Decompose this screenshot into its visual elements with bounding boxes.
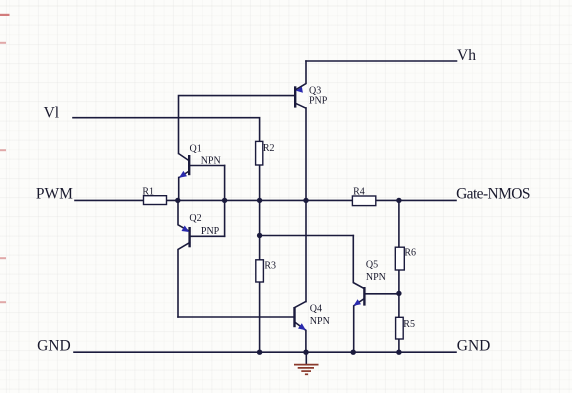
transistor Q4 emitter arrow (298, 323, 306, 330)
wire Q3 base from Q1 collector (179, 96, 295, 154)
sheet edge mark 3 (0, 149, 6, 151)
junction node Q3 collector on rail (303, 198, 308, 203)
wire R2 bottom through rail to R3 top (259, 165, 261, 260)
wire R3 bottom to ground rail (259, 282, 261, 352)
wire Vh vertical to Q3 emitter (296, 61, 306, 90)
svg-text:GND: GND (457, 337, 491, 354)
junction node R2-R3-Q5 (257, 233, 262, 238)
svg-text:R1: R1 (142, 187, 154, 198)
wire Q3 collector down to rail and Q4 collector (305, 108, 307, 302)
resistor R6 (395, 247, 404, 270)
transistor Q5 base bar (363, 287, 365, 306)
svg-text:R4: R4 (353, 187, 365, 198)
svg-text:Q4: Q4 (310, 303, 322, 314)
wire Vl to R2 top (73, 118, 260, 142)
wire ground rail (74, 351, 456, 353)
transistor Q2 base bar (188, 227, 190, 247)
svg-text:Q2: Q2 (189, 213, 201, 224)
wire Q5 emitter to ground rail (354, 299, 365, 353)
resistor R3 (256, 260, 264, 282)
wire rail R6 branch (398, 200, 400, 247)
wire Q5 collector (353, 236, 364, 289)
svg-text:PNP: PNP (201, 226, 220, 237)
resistor R2 (256, 141, 263, 165)
ground stem (305, 352, 307, 364)
junction node R6 on rail (396, 198, 401, 203)
svg-text:Q5: Q5 (366, 260, 378, 271)
resistor R1 (144, 196, 167, 205)
ground symbol bars (294, 365, 319, 375)
svg-text:GND: GND (37, 337, 71, 354)
wire Q2 emitter from rail (178, 200, 190, 231)
wire rail PWM to R1 (75, 199, 144, 201)
junction node Q4 emitter on ground rail (303, 350, 308, 355)
svg-text:NPN: NPN (310, 316, 330, 327)
resistor R4 (352, 196, 375, 206)
sheet edge mark 5 (0, 301, 6, 303)
sheet edge mark 4 (0, 257, 6, 259)
transistor Q2 emitter arrow (182, 226, 190, 233)
transistor Q1 emitter arrow (179, 171, 187, 178)
wire Q4 collector slant (295, 302, 306, 308)
wire R6 bottom to node (398, 270, 400, 317)
wire Q2 collector down (178, 243, 190, 317)
sheet edge mark 2 (0, 42, 6, 44)
resistor R5 (396, 317, 404, 339)
wire node vertical x224 (224, 166, 226, 237)
svg-text:NPN: NPN (201, 156, 221, 167)
svg-text:R3: R3 (264, 260, 276, 271)
junction node R6-R5-Q5 base (396, 291, 401, 296)
transistor Q5 emitter arrow (354, 299, 362, 306)
wire Q2 collector to Q4 base (178, 316, 294, 318)
svg-text:Gate-NMOS: Gate-NMOS (456, 185, 530, 202)
wire Q4 emitter to ground rail (295, 322, 306, 352)
wire rail R4 to Gate-NMOS (376, 199, 456, 201)
sheet edge mark 1 (0, 14, 10, 16)
junction node R1/Q1/Q2 (175, 198, 180, 203)
svg-text:Q1: Q1 (190, 144, 202, 155)
wire Vh horizontal (306, 60, 457, 62)
junction node R3 on ground rail (257, 350, 262, 355)
svg-text:PNP: PNP (309, 95, 328, 106)
wire Q1 emitter down to rail (178, 178, 180, 201)
svg-text:R5: R5 (403, 319, 415, 330)
wire node R2R3 to Q5 collector (260, 235, 354, 237)
transistor Q3 emitter arrow (296, 87, 303, 93)
wire rail R1 to R4 (167, 199, 353, 201)
svg-text:Vh: Vh (457, 47, 476, 64)
svg-text:R2: R2 (263, 143, 275, 154)
svg-text:NPN: NPN (366, 272, 386, 283)
transistor Q1 slants (179, 154, 190, 178)
svg-text:Vl: Vl (44, 104, 60, 121)
transistor Q4 base bar (293, 307, 295, 327)
transistor Q3 base bar (294, 86, 296, 107)
transistor Q1 base bar (188, 155, 190, 175)
wire Q1 base to node (189, 165, 224, 167)
svg-text:PWM: PWM (36, 185, 73, 202)
transistor Q3 collector slant (295, 103, 306, 108)
wire R5 bottom to ground rail (398, 339, 400, 352)
junction node R5 on ground rail (396, 350, 401, 355)
svg-text:R6: R6 (404, 247, 416, 258)
junction node R2 on rail (257, 198, 262, 203)
wire Q2 base (190, 235, 225, 237)
junction node bases x224 (222, 198, 227, 203)
junction node Q5 emitter on ground rail (351, 350, 356, 355)
wire Q5 base (364, 293, 399, 295)
